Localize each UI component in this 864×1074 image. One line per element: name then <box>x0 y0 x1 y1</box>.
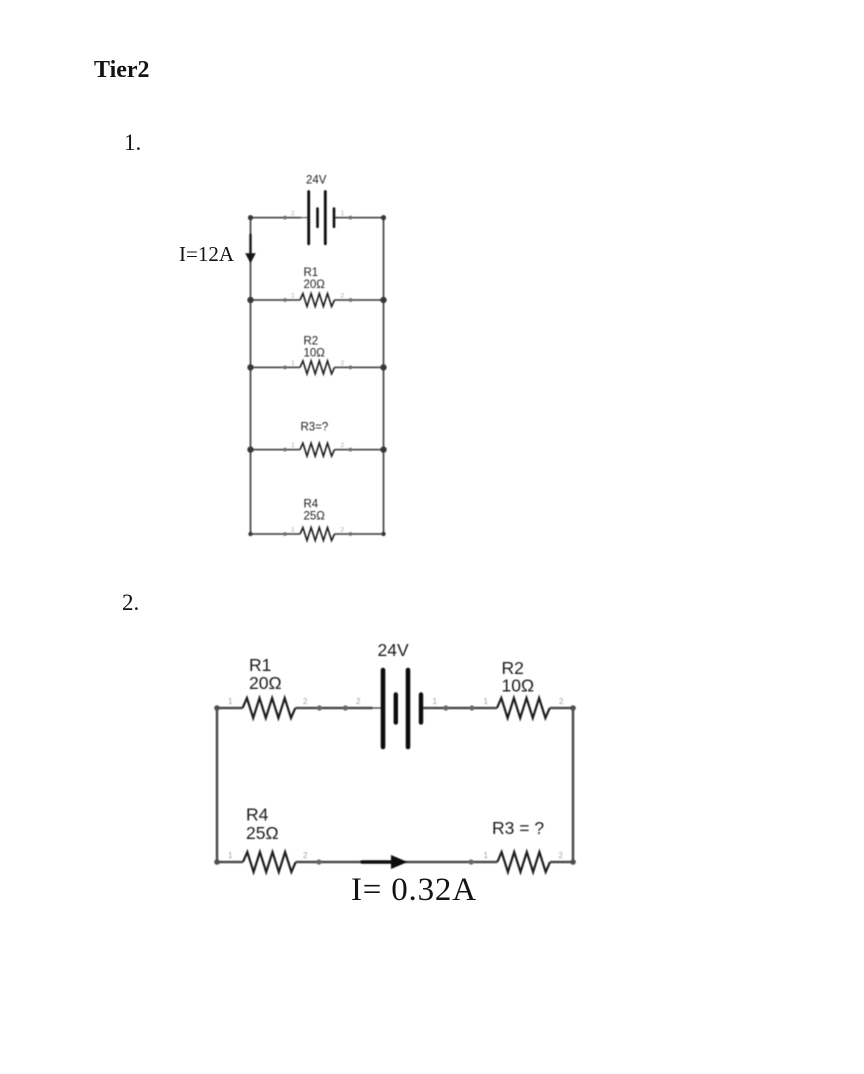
svg-text:20Ω: 20Ω <box>304 279 326 291</box>
svg-text:R3=?: R3=? <box>301 422 329 434</box>
svg-text:2: 2 <box>356 697 361 706</box>
svg-text:10Ω: 10Ω <box>304 347 326 359</box>
svg-text:1: 1 <box>484 697 489 706</box>
svg-text:2: 2 <box>341 360 345 367</box>
svg-text:1: 1 <box>484 851 489 860</box>
svg-text:25Ω: 25Ω <box>246 823 279 843</box>
svg-text:2: 2 <box>559 851 564 860</box>
svg-text:2: 2 <box>341 292 345 299</box>
svg-text:10Ω: 10Ω <box>502 676 535 696</box>
svg-text:25Ω: 25Ω <box>304 511 326 523</box>
svg-text:24V: 24V <box>378 640 409 660</box>
svg-text:2: 2 <box>303 697 308 706</box>
svg-text:1: 1 <box>291 442 295 449</box>
svg-text:1: 1 <box>291 292 295 299</box>
svg-text:R4: R4 <box>304 499 319 511</box>
svg-text:2: 2 <box>559 697 564 706</box>
svg-text:R4: R4 <box>246 805 269 825</box>
svg-text:1: 1 <box>228 697 233 706</box>
svg-text:1: 1 <box>291 360 295 367</box>
svg-text:2: 2 <box>291 210 295 217</box>
svg-text:24V: 24V <box>306 175 327 187</box>
svg-text:R3 = ?: R3 = ? <box>492 818 544 838</box>
svg-text:1: 1 <box>291 526 295 533</box>
svg-text:R2: R2 <box>304 336 319 348</box>
svg-text:20Ω: 20Ω <box>249 673 282 693</box>
svg-text:2: 2 <box>341 442 345 449</box>
svg-text:1: 1 <box>341 210 345 217</box>
svg-text:1: 1 <box>228 851 233 860</box>
svg-text:R1: R1 <box>304 267 319 279</box>
svg-text:2: 2 <box>303 851 308 860</box>
svg-text:2: 2 <box>341 526 345 533</box>
svg-text:1: 1 <box>433 697 438 706</box>
svg-text:R1: R1 <box>249 655 271 675</box>
